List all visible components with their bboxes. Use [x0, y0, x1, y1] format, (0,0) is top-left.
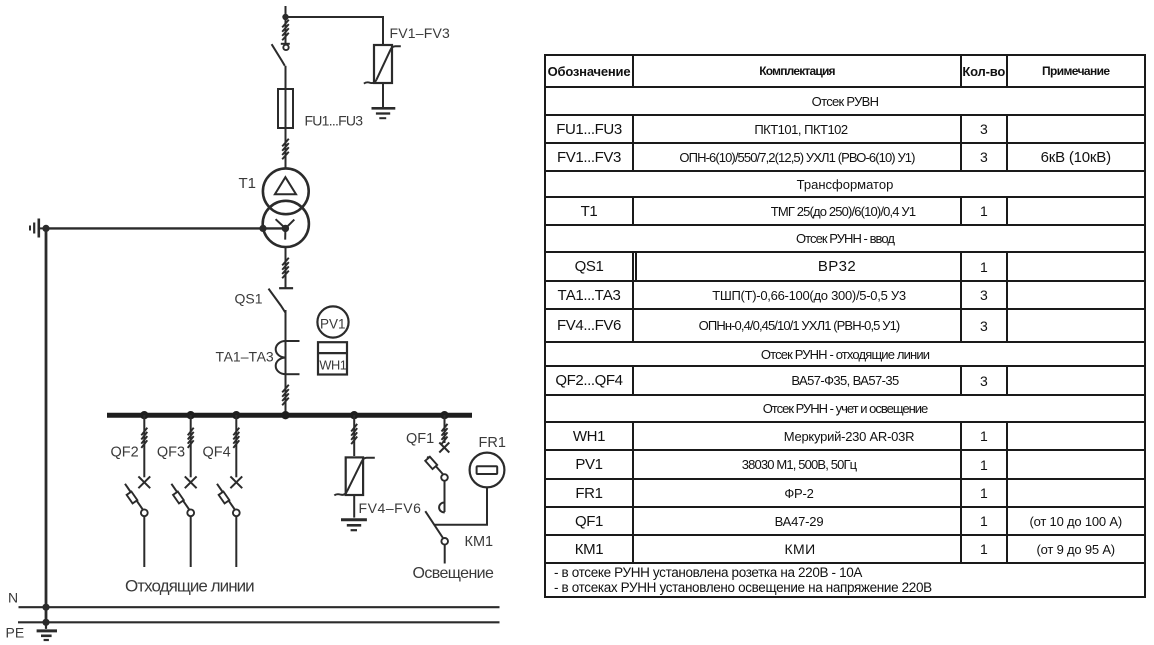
node: busbar main [281, 411, 289, 419]
wire: FR1 to KM1 blade [434, 488, 487, 525]
breaker QF4 [217, 415, 242, 567]
svg-text:FV1–FV3: FV1–FV3 [390, 25, 451, 41]
node: busbar FV4 tap [350, 411, 358, 419]
svg-text:PV1: PV1 [320, 317, 346, 332]
cable marks above QS1 [282, 258, 289, 278]
svg-text:WH1: WH1 [319, 357, 346, 372]
wire: PE busbar (horizontal) [18, 621, 500, 623]
wire: transformer to QS1 [285, 247, 287, 289]
cable marks on HV line [282, 20, 289, 40]
svg-text:PE: PE [6, 625, 25, 641]
breaker QF2 [125, 415, 150, 567]
ground (neutral earthing, left) [30, 219, 44, 238]
current transformers TA1-TA3 [276, 341, 300, 374]
svg-text:QF2: QF2 [111, 445, 139, 461]
node: busbar QF2 tap [140, 411, 148, 419]
node: neutral junction [42, 225, 49, 232]
node: HV line top junction [285, 6, 287, 44]
breaker QF3 [171, 415, 196, 567]
node: busbar QF1 tap [440, 411, 448, 419]
junction on transformer circle [259, 225, 266, 232]
svg-text:QF3: QF3 [157, 445, 185, 461]
ground (PE earthing, bottom) [37, 622, 57, 640]
photo relay FR1 [470, 453, 505, 488]
wire: transformer neutral to N conductor [46, 227, 285, 229]
wire: branch to surge arresters FV1-FV3 [286, 17, 384, 45]
transformer T1 [263, 168, 309, 247]
node: PE junction [42, 619, 49, 626]
svg-text:Отходящие линии: Отходящие линии [125, 577, 254, 596]
doubled cell border on QS1 row [635, 252, 637, 280]
wire: N busbar (horizontal) [19, 606, 500, 608]
fuse FU1..FU3 [278, 89, 293, 128]
svg-text:ТА1–ТА3: ТА1–ТА3 [216, 349, 274, 365]
node: busbar QF4 tap [232, 411, 240, 419]
cable marks above busbar [282, 385, 289, 405]
busbar 0.4kV [107, 413, 472, 418]
svg-text:QF1: QF1 [406, 431, 434, 447]
wire: switch to fuse [285, 66, 287, 168]
voltmeter PV1 [317, 306, 348, 337]
switch QS1 [269, 288, 294, 312]
svg-text:FU1...FU3: FU1...FU3 [305, 113, 364, 129]
wire: N conductor (vertical) [45, 228, 48, 622]
svg-text:КМ1: КМ1 [465, 534, 494, 550]
ground (FV4-FV6) [341, 520, 367, 531]
single-line diagram of substation [0, 0, 545, 645]
surge arresters FV1-FV3 [364, 45, 401, 108]
breaker QF1 [425, 415, 449, 512]
surge arresters FV4-FV6 [334, 415, 375, 518]
node: N junction [42, 604, 49, 611]
svg-text:QS1: QS1 [235, 291, 263, 307]
cable marks below fuse [282, 139, 289, 160]
svg-text:Т1: Т1 [239, 175, 257, 192]
svg-text:FR1: FR1 [479, 435, 506, 451]
disconnect switch (HV) [272, 44, 290, 66]
energy meter WH1 [318, 342, 347, 374]
svg-text:N: N [8, 590, 18, 606]
node: busbar QF3 tap [187, 411, 195, 419]
svg-text:QF4: QF4 [203, 445, 231, 461]
svg-text:Освещение: Освещение [413, 565, 495, 582]
ground (FV1-FV3) [372, 108, 396, 118]
equipment table [544, 54, 1146, 598]
svg-text:FV4–FV6: FV4–FV6 [359, 500, 422, 516]
wire: QS1 to busbar [285, 310, 287, 413]
contactor KM1 [425, 503, 448, 564]
